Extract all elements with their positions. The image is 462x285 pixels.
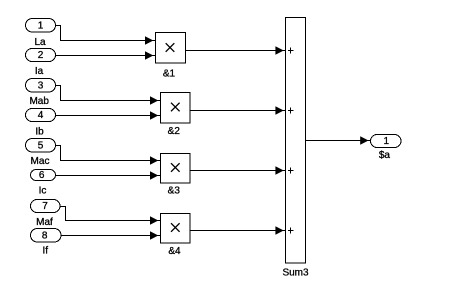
- plus sign sum input 1: [288, 48, 294, 54]
- svg-text:2: 2: [38, 50, 44, 61]
- svg-text:5: 5: [38, 141, 44, 152]
- wire inport7 to U4 input1: [60, 207, 160, 221]
- wire inport2 to U1 input2: [56, 55, 156, 57]
- svg-text:1: 1: [384, 136, 390, 147]
- svg-text:&4: &4: [168, 246, 181, 257]
- product block U1: [156, 33, 186, 64]
- arrowhead Sum3 input3: [275, 166, 283, 175]
- wire Sum3 output to outport: [306, 140, 371, 142]
- svg-text:$a: $a: [379, 150, 391, 161]
- wire inport1 to U1 input1: [56, 26, 156, 41]
- svg-text:Sum3: Sum3: [282, 267, 309, 278]
- arrowhead U4 input1: [150, 216, 158, 225]
- arrowhead U2 input2: [150, 111, 158, 120]
- wire inport8 to U4 input2: [61, 235, 160, 237]
- svg-text:Ib: Ib: [35, 126, 44, 137]
- inport 4: [26, 109, 56, 122]
- arrowhead U3 input1: [150, 156, 158, 165]
- wire inport3 to U2 input1: [56, 86, 161, 101]
- arrowhead U4 input2: [150, 231, 158, 240]
- svg-text:1: 1: [38, 21, 44, 32]
- inport 7: [31, 200, 61, 213]
- outport 1: [371, 135, 402, 148]
- plus sign sum input 3: [288, 168, 294, 174]
- svg-text:Maf: Maf: [36, 217, 53, 228]
- multiply sign U1: [166, 43, 175, 52]
- arrowhead U2 input1: [150, 96, 158, 105]
- wire inport5 to U3 input1: [56, 146, 161, 161]
- svg-text:If: If: [43, 246, 49, 257]
- svg-text:&3: &3: [168, 185, 181, 196]
- sum block Sum3: [286, 18, 306, 264]
- svg-text:&2: &2: [168, 126, 181, 137]
- arrowhead outport: [360, 136, 368, 145]
- product block U4: [161, 214, 191, 244]
- svg-text:Mac: Mac: [31, 156, 50, 167]
- wire U4 output to Sum3 input4: [191, 230, 286, 232]
- wire U2 output to Sum3 input2: [191, 110, 286, 112]
- arrowhead Sum3 input1: [275, 46, 283, 55]
- svg-text:7: 7: [42, 201, 48, 212]
- multiply sign U4: [171, 223, 180, 232]
- svg-text:4: 4: [38, 110, 44, 121]
- inport 5: [26, 139, 56, 153]
- product block U3: [161, 154, 191, 184]
- inport 2: [26, 49, 56, 62]
- svg-text:Ia: Ia: [35, 66, 44, 77]
- wire inport4 to U2 input2: [56, 115, 161, 117]
- product block U2: [161, 93, 191, 124]
- plus sign sum input 2: [288, 108, 294, 114]
- arrowhead Sum3 input2: [275, 106, 283, 115]
- arrowhead Sum3 input4: [275, 226, 283, 235]
- svg-text:&1: &1: [163, 68, 176, 79]
- svg-text:Mab: Mab: [29, 96, 49, 107]
- arrowhead U1 input1: [145, 36, 153, 45]
- multiply sign U3: [171, 163, 180, 172]
- svg-text:6: 6: [39, 170, 45, 181]
- inport 6: [31, 170, 56, 181]
- svg-text:3: 3: [38, 81, 44, 92]
- wire inport6 to U3 input2: [56, 175, 161, 177]
- svg-text:La: La: [34, 37, 46, 48]
- svg-text:Ic: Ic: [39, 185, 47, 196]
- wire U1 output to Sum3 input1: [186, 50, 286, 52]
- svg-text:8: 8: [42, 230, 48, 241]
- inport 8: [31, 229, 62, 243]
- plus sign sum input 4: [288, 228, 294, 234]
- arrowhead U1 input2: [145, 51, 153, 60]
- inport 1: [26, 19, 56, 33]
- wire U3 output to Sum3 input3: [191, 170, 286, 172]
- multiply sign U2: [171, 103, 180, 112]
- inport 3: [26, 79, 56, 93]
- arrowhead U3 input2: [150, 171, 158, 180]
